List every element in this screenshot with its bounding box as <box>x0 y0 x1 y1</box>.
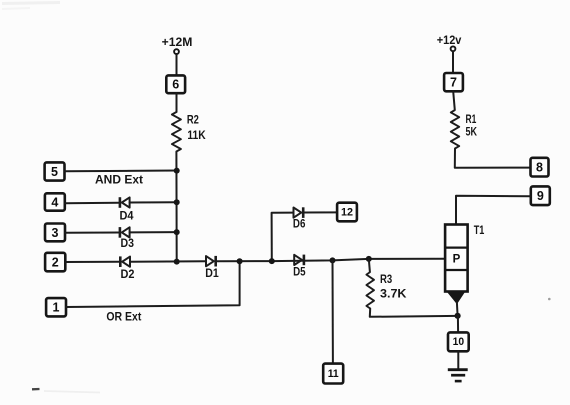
terminal box 1 <box>46 298 66 316</box>
junction AND Ext / bus <box>174 168 180 174</box>
net label OR Ext <box>106 312 141 324</box>
ground <box>448 370 468 381</box>
svg-text:D3: D3 <box>121 238 135 250</box>
svg-text:AND Ext: AND Ext <box>95 174 143 186</box>
terminal box 8 <box>531 158 549 177</box>
wire main line to R3 <box>369 259 370 272</box>
value label 5K <box>466 127 478 139</box>
wire D4 to bus <box>130 201 177 203</box>
net label AND Ext <box>95 174 143 186</box>
svg-text:R2: R2 <box>187 114 199 126</box>
svg-text:9: 9 <box>537 189 544 203</box>
scan smudge top-left <box>2 3 60 10</box>
wire cathode to junction <box>456 303 459 316</box>
wire box 7 to R1 <box>453 91 455 110</box>
diode D1 <box>206 256 216 267</box>
svg-text:+12v: +12v <box>437 33 462 47</box>
wire main line D2 to D1 <box>130 260 206 262</box>
wire +12v to box 7 <box>452 52 454 74</box>
wire AND Ext <box>65 170 177 173</box>
svg-text:R3: R3 <box>380 274 392 286</box>
scan dash bottom-left <box>32 389 100 393</box>
terminal box 2 <box>45 253 65 271</box>
wire +12M to box 6 <box>176 54 178 75</box>
svg-text:11: 11 <box>328 368 339 380</box>
diode D2 <box>120 256 130 267</box>
wire box 6 to R2 <box>176 93 178 112</box>
svg-text:+12M: +12M <box>162 35 193 49</box>
wire main line D1 to T1 emitter <box>217 259 445 261</box>
svg-text:OR Ext: OR Ext <box>106 312 141 324</box>
svg-text:D1: D1 <box>205 268 219 280</box>
wire box 10 to ground <box>457 351 459 368</box>
svg-text:D5: D5 <box>293 267 306 279</box>
svg-text:3.7K: 3.7K <box>380 288 407 300</box>
label T1 <box>474 225 485 237</box>
svg-text:5: 5 <box>51 165 58 179</box>
diode D4 <box>120 197 130 208</box>
svg-text:6: 6 <box>172 78 179 92</box>
svg-text:R1: R1 <box>466 114 477 126</box>
terminal box 12 <box>337 203 357 222</box>
svg-text:3: 3 <box>52 226 59 240</box>
wire to box 11 <box>332 260 334 363</box>
svg-text:D2: D2 <box>121 269 135 281</box>
scan speck right <box>548 298 551 301</box>
wire box 2 to D2 <box>65 261 119 263</box>
wire D3 to bus <box>130 231 177 233</box>
svg-text:D6: D6 <box>293 218 306 230</box>
junction D5 output / box 11 branch <box>330 257 336 263</box>
terminal box 5 <box>45 162 65 180</box>
resistor R1 <box>451 110 459 149</box>
resistor R2 <box>172 112 181 152</box>
svg-text:1: 1 <box>53 301 60 315</box>
svg-text:10: 10 <box>453 336 465 348</box>
junction OR Ext / main line <box>237 258 243 264</box>
wire R2 to main line (AND bus) <box>175 152 177 262</box>
junction bus / main line <box>174 259 180 265</box>
svg-text:2: 2 <box>52 255 59 269</box>
wire OR Ext to main line <box>66 261 240 307</box>
resistor R3 <box>366 272 374 309</box>
diode D5 <box>294 255 304 266</box>
svg-text:7: 7 <box>450 76 457 90</box>
transistor T1 body <box>445 225 468 292</box>
terminal box 7 <box>444 73 463 91</box>
svg-text:8: 8 <box>536 161 543 175</box>
wire junction to box 10 <box>457 316 459 333</box>
terminal box 9 <box>531 186 550 205</box>
wire D6 to box 12 <box>303 211 337 213</box>
svg-text:D4: D4 <box>120 211 135 223</box>
junction D3 / bus <box>174 229 180 235</box>
junction D4 / bus <box>174 199 180 205</box>
terminal box 10 <box>448 332 469 351</box>
svg-text:11K: 11K <box>187 130 206 142</box>
transistor T1 cathode arrow <box>448 292 465 303</box>
power terminal +12M <box>162 35 193 54</box>
value label 3.7K <box>380 288 407 300</box>
svg-text:T1: T1 <box>474 225 485 237</box>
wire box 9 to T1 base <box>456 196 531 225</box>
wire box 4 to D4 <box>65 202 119 205</box>
svg-text:P: P <box>453 253 461 265</box>
value label 11K <box>187 130 206 142</box>
diode D6 <box>294 207 304 218</box>
value label R2 <box>187 114 199 126</box>
wire box 3 to D3 <box>65 232 119 234</box>
wire R1 to box 8 <box>455 149 531 168</box>
wire D6 branch <box>272 213 294 262</box>
junction D6 branch / main line <box>269 258 275 264</box>
label D1 <box>205 268 219 280</box>
terminal box 3 <box>45 224 65 242</box>
terminal box 11 <box>323 364 343 384</box>
value label R3 <box>380 274 392 286</box>
diode D3 <box>120 227 130 238</box>
terminal box 4 <box>45 193 65 210</box>
terminal box 6 <box>166 75 185 93</box>
label D2 <box>121 269 135 281</box>
junction cathode / R3 / box 10 <box>455 313 461 319</box>
junction R3 / main line <box>366 256 372 262</box>
value label R1 <box>466 114 477 126</box>
label D6 <box>293 218 306 230</box>
power terminal +12v <box>437 33 462 51</box>
svg-text:12: 12 <box>341 206 353 218</box>
svg-text:4: 4 <box>51 195 58 209</box>
label D3 <box>121 238 135 250</box>
label D4 <box>120 211 135 223</box>
label D5 <box>293 267 306 279</box>
wire R3 to cathode junction <box>370 309 458 317</box>
svg-text:5K: 5K <box>466 127 478 139</box>
